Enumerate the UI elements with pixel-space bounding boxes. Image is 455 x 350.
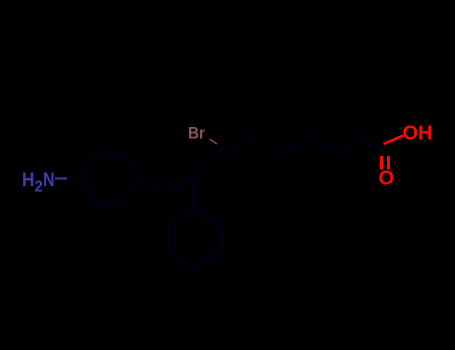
svg-text:H: H — [22, 168, 34, 190]
svg-text:O: O — [379, 168, 395, 190]
svg-text:2: 2 — [35, 178, 44, 195]
svg-text:Br: Br — [188, 124, 206, 143]
svg-text:N: N — [43, 169, 55, 191]
svg-text:OH: OH — [403, 123, 433, 145]
